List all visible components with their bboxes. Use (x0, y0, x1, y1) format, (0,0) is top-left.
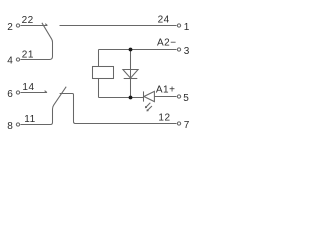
contact tick 22 (45, 24, 47, 26)
svg-text:21: 21 (22, 50, 34, 61)
diode V1 cathode bar (124, 78, 138, 80)
contact lever bottom (11-12) (21, 87, 67, 125)
svg-text:12: 12 (158, 113, 170, 124)
svg-text:14: 14 (22, 82, 34, 93)
svg-text:4: 4 (7, 56, 13, 67)
diode branch wire (130, 50, 132, 98)
contact lever top (21-22) (21, 23, 53, 60)
terminal 6 circle (16, 91, 19, 94)
svg-text:11: 11 (24, 114, 35, 125)
LED arrow 1 (146, 103, 151, 108)
contact tick 14 (45, 91, 47, 93)
svg-text:24: 24 (158, 15, 170, 26)
svg-text:A1+: A1+ (156, 85, 176, 96)
wire 24 (60, 25, 177, 27)
svg-text:3: 3 (184, 46, 190, 57)
LED arrow 2 (147, 106, 152, 111)
relay coil rectangle (93, 67, 114, 79)
svg-text:A2−: A2− (157, 38, 177, 49)
junction dot rail/diode (129, 96, 133, 100)
svg-text:2: 2 (7, 22, 13, 33)
terminal 4 circle (16, 58, 19, 61)
wire coil bottom (98, 79, 100, 98)
terminal 2 circle (16, 24, 19, 27)
svg-text:7: 7 (184, 120, 190, 131)
junction dot A2/diode (129, 48, 133, 52)
wire bottom rail (99, 97, 144, 99)
LED triangle (144, 91, 155, 101)
terminal 3 circle (177, 48, 180, 51)
wire 12 stub and vertical (60, 94, 177, 124)
wire 22 (21, 25, 48, 27)
svg-text:6: 6 (7, 89, 13, 100)
terminal 5 circle (177, 95, 180, 98)
wire coil top (98, 50, 100, 67)
terminal 7 circle (177, 122, 180, 125)
LED cathode bar (143, 91, 145, 101)
svg-text:1: 1 (184, 22, 190, 33)
terminal 1 circle (177, 24, 180, 27)
svg-text:8: 8 (7, 121, 13, 132)
terminal 8 circle (16, 123, 19, 126)
diode V1 triangle (123, 70, 138, 79)
wire 14 (21, 92, 47, 94)
wire A1 (154, 96, 176, 98)
wire A2 rail (99, 49, 177, 51)
svg-text:5: 5 (183, 93, 189, 104)
svg-text:22: 22 (22, 15, 34, 26)
